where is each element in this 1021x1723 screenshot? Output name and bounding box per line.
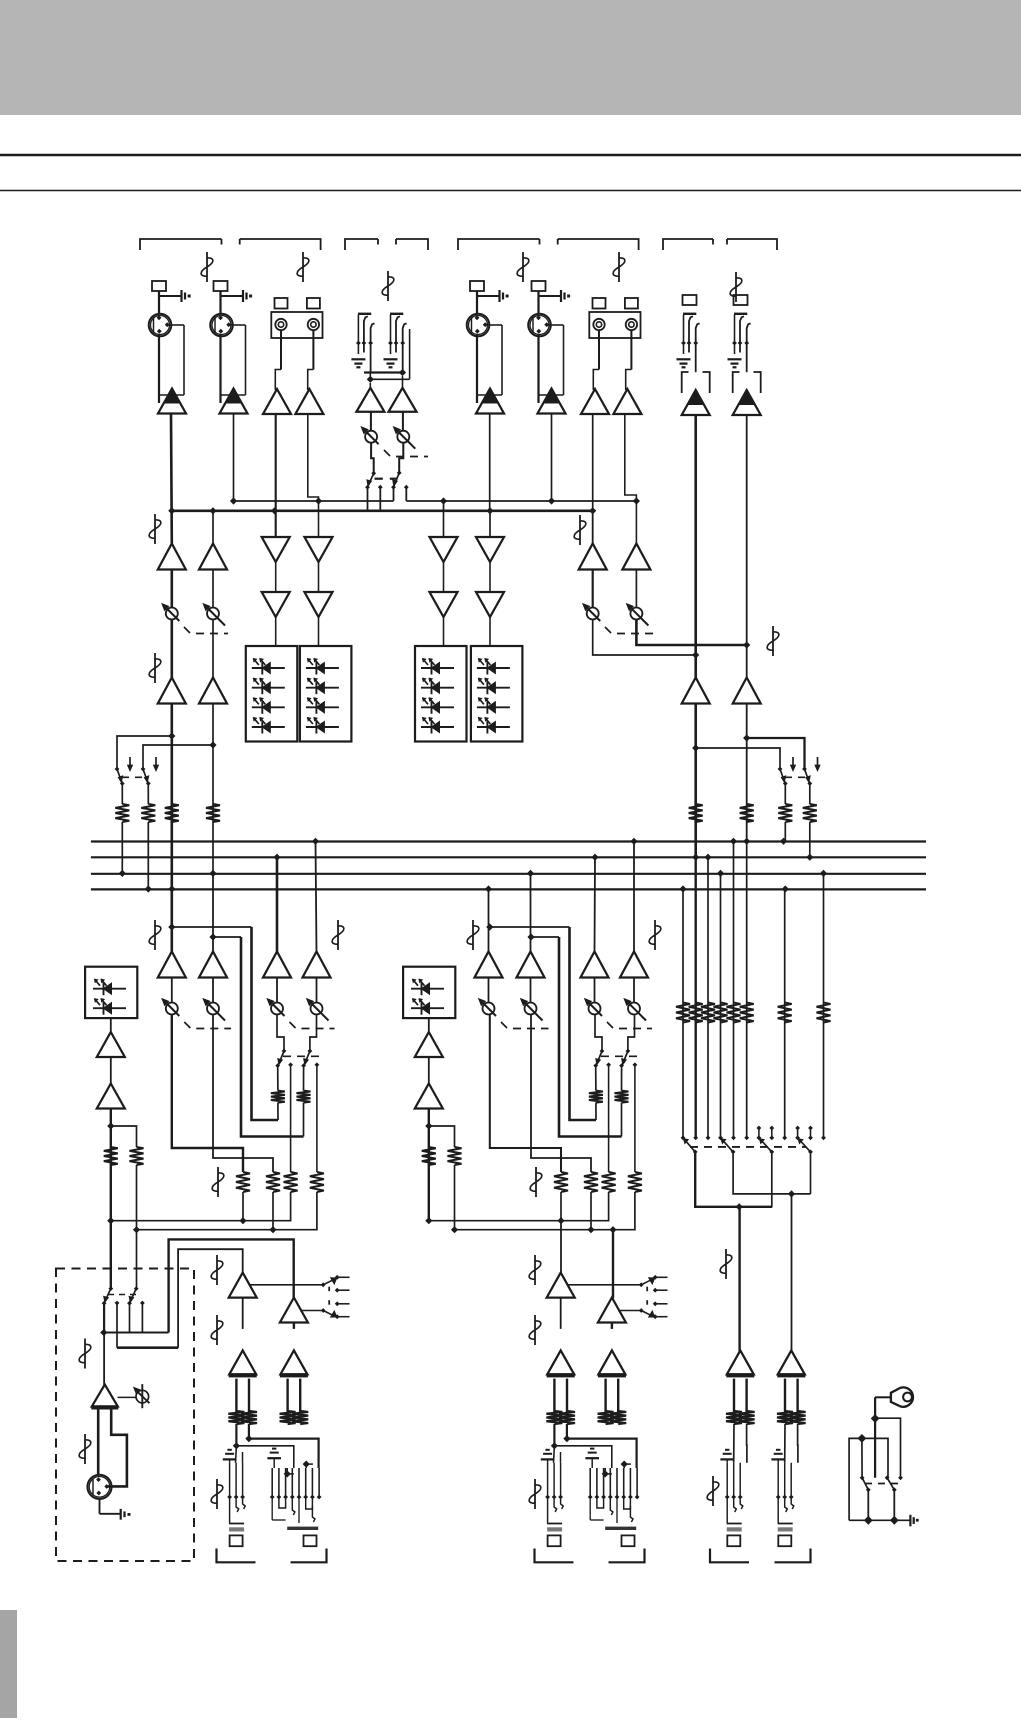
node outA line bbox=[563, 1435, 570, 1442]
wire matrix col 2 bbox=[695, 857, 697, 1138]
bus line 1 bbox=[91, 840, 926, 842]
node tap1 L bbox=[168, 923, 175, 930]
wire tap1b L bbox=[252, 927, 279, 1120]
wire sel R R bbox=[618, 1310, 641, 1312]
node sum1b R bbox=[557, 1217, 564, 1224]
node ch1 bbox=[168, 507, 175, 514]
wire matrix out B bbox=[733, 1152, 810, 1194]
gang dashes matrix bbox=[690, 1146, 806, 1148]
eq down amp a x443 bbox=[430, 537, 458, 562]
node mon2b bbox=[209, 741, 216, 748]
arrow throw 1 bbox=[129, 757, 131, 769]
meter box 1 bbox=[246, 646, 297, 742]
wire pad to XLR CH2 bbox=[219, 291, 221, 314]
wire tap1 R bbox=[490, 926, 570, 928]
node mon1 bbox=[168, 732, 175, 739]
dashed option box bbox=[56, 1269, 194, 1562]
wire XLR loop CH1 bbox=[168, 324, 184, 326]
meter box small L bbox=[85, 967, 137, 1018]
wire amp pot bbox=[118, 1396, 137, 1398]
matrix lever 4 bbox=[798, 1138, 811, 1152]
wire gnd out 2 bbox=[893, 1490, 895, 1521]
wire crL out L bbox=[242, 1298, 244, 1329]
XLR connector CH2 bbox=[210, 314, 233, 337]
wire out thick line bbox=[567, 1439, 637, 1468]
box level pot bbox=[136, 1390, 149, 1403]
bus nodes 3 bbox=[119, 870, 126, 877]
phones resistor R1 bbox=[422, 1147, 436, 1165]
wire r1 bus bbox=[121, 822, 123, 873]
st level pot L bbox=[365, 431, 377, 443]
bus resistor R7 bbox=[689, 804, 703, 822]
wire r down L2 bbox=[272, 1192, 274, 1230]
collect line thick bbox=[172, 509, 593, 512]
amp 2TR R bbox=[733, 390, 761, 415]
output resistor line1b bbox=[610, 1411, 626, 1424]
bus resistor R5 bbox=[778, 804, 792, 822]
wire sel L R bbox=[567, 1284, 641, 1286]
output resistor line0a bbox=[546, 1411, 562, 1424]
wire xlr ground bbox=[99, 1499, 101, 1514]
wire tap1 L bbox=[172, 926, 252, 928]
wire XLR loop CH2 bbox=[230, 324, 246, 326]
sine symbol box 1 bbox=[84, 1339, 86, 1369]
wire 2tr R drop bbox=[746, 415, 748, 645]
wire box xlr loop bbox=[108, 1409, 127, 1486]
wire pot 316.5 bbox=[316, 978, 318, 1003]
section bracket CH input A bbox=[140, 239, 222, 250]
eq down amp b x490 bbox=[476, 592, 504, 617]
wire tap2b R bbox=[559, 937, 622, 1137]
wire box xlr left bbox=[97, 1409, 100, 1475]
pad CH6 bbox=[532, 281, 546, 291]
sel stubs R L bbox=[335, 1301, 340, 1306]
sine symbol send L bbox=[217, 1167, 219, 1197]
pad RCA R B bbox=[625, 298, 638, 309]
wire RCA R A bbox=[312, 330, 314, 369]
wire sum2 L bbox=[137, 1192, 317, 1230]
strip amp 634 bbox=[620, 952, 648, 978]
gang mon pots bbox=[184, 627, 190, 633]
line amp RCA R A bbox=[295, 389, 323, 414]
phones resistor L1 bbox=[104, 1147, 118, 1165]
node sum2a L bbox=[133, 1226, 140, 1233]
arrow throw 4 bbox=[817, 757, 819, 769]
node outD line bbox=[602, 1470, 609, 1477]
aux amp A2 bbox=[622, 544, 650, 570]
wire pr R1 bbox=[428, 1165, 430, 1221]
wire matrix out A2 bbox=[771, 1152, 773, 1207]
wire cr loop outer bbox=[169, 1239, 294, 1332]
bracket out crb bbox=[291, 1549, 327, 1563]
pad RCA R A bbox=[307, 298, 320, 309]
wire res R2 bbox=[621, 1103, 623, 1137]
st switch R bbox=[399, 443, 403, 473]
strip pot 213 bbox=[207, 1003, 219, 1015]
bus nodes 2 bbox=[273, 854, 280, 861]
power amp cr1 bbox=[280, 1350, 307, 1374]
sw jog L2 bbox=[310, 1015, 317, 1052]
sine symbol mon A bbox=[154, 514, 156, 544]
bus resistor R1 bbox=[115, 804, 129, 822]
mon pot A2 bbox=[207, 608, 219, 620]
wire monA2 b bbox=[212, 620, 214, 678]
wire rca1 drop bbox=[275, 414, 277, 537]
wire XLR loop CH6 bbox=[548, 324, 564, 326]
RCA connector pair B bbox=[589, 312, 640, 338]
wire tap2 R bbox=[531, 936, 559, 938]
mute switch 2 bbox=[141, 767, 146, 772]
ground cap CH1 bbox=[159, 295, 181, 297]
sel stubs L L bbox=[335, 1275, 340, 1280]
gang strip 277 bbox=[290, 1022, 296, 1028]
eq down amp a x275 bbox=[262, 537, 290, 562]
output jack stereo cr bbox=[272, 1448, 276, 1450]
wire bal pair line0 bbox=[553, 1379, 555, 1413]
wire crR out R bbox=[611, 1323, 613, 1329]
aux resistor R2 bbox=[615, 1091, 629, 1103]
wire bal pair cr1 bbox=[286, 1379, 288, 1413]
matrix resistor 7 bbox=[778, 1003, 792, 1023]
strip amp 488.5 bbox=[475, 952, 503, 978]
sine symbol 2tr mix bbox=[772, 626, 774, 656]
node c2 bbox=[486, 507, 493, 514]
wire eq x275 bbox=[275, 562, 277, 592]
cr amp L L bbox=[229, 1273, 257, 1298]
wire mon send R2 bbox=[531, 1015, 591, 1173]
output resistor line1a bbox=[598, 1411, 614, 1424]
bracket out linea bbox=[535, 1549, 574, 1563]
sine symbol mon B bbox=[154, 653, 156, 683]
top grey banner bbox=[0, 0, 1021, 115]
wire mon tap 2 bbox=[143, 745, 213, 769]
strip amp 171.8 bbox=[158, 952, 186, 978]
collect line thin b bbox=[406, 500, 636, 502]
chassis ground main bbox=[909, 1515, 911, 1527]
bus line 3 bbox=[91, 873, 926, 875]
wire bal pair main0 bbox=[733, 1379, 735, 1413]
bus resistor R6 bbox=[803, 804, 817, 822]
eq down amp a x318 bbox=[305, 537, 333, 562]
wire monR drop sub bbox=[489, 511, 491, 537]
gang strip 488.5 bbox=[501, 1022, 507, 1028]
wire bus to stripC2 bbox=[530, 873, 532, 952]
wire ch5 drop bbox=[489, 414, 491, 511]
jack ST in R bbox=[390, 313, 403, 315]
sine symbol jack line1 bbox=[534, 1479, 536, 1509]
gang dashes gnd bbox=[865, 1483, 898, 1485]
phones resistor L2 bbox=[130, 1147, 144, 1165]
bus resistor R8 bbox=[740, 804, 754, 822]
wire bus to stripA2 bbox=[212, 873, 214, 952]
wire crR out L bbox=[293, 1323, 295, 1329]
mon amp B2 bbox=[199, 678, 227, 704]
pad CH1 bbox=[152, 281, 166, 291]
wire gnd bottom bbox=[849, 1519, 910, 1521]
arrow throw 2 bbox=[155, 757, 157, 769]
frame 2TR L bbox=[682, 372, 689, 393]
wire meter feed x490 bbox=[489, 617, 491, 646]
strip switch L1 bbox=[282, 1049, 287, 1054]
wire bal pair line1 bbox=[604, 1379, 606, 1413]
ground cap CH5 bbox=[477, 295, 499, 297]
chassis ground box bbox=[120, 1509, 122, 1520]
eq down amp b x443 bbox=[430, 592, 458, 617]
XLR connector CH6 bbox=[528, 314, 551, 337]
output resistor cr0a bbox=[228, 1411, 244, 1424]
output jack mono line bbox=[545, 1449, 549, 1451]
node auxR bbox=[743, 641, 750, 648]
st switch L bbox=[371, 443, 374, 473]
node sum1a L bbox=[107, 1217, 114, 1224]
send resistor R0 bbox=[554, 1172, 568, 1192]
wire phones out L bbox=[110, 1109, 112, 1221]
sine symbol box 2 bbox=[84, 1434, 86, 1464]
sine symbol send R bbox=[535, 1167, 537, 1197]
strip pot 277 bbox=[271, 1003, 283, 1015]
wire 2tr tap 1 bbox=[696, 748, 780, 769]
wire sel L L bbox=[249, 1284, 323, 1286]
section bracket CH input B bbox=[458, 239, 540, 250]
wire mout main La bbox=[733, 1424, 735, 1463]
wire sum1 R bbox=[429, 1192, 609, 1221]
wire box amp bbox=[103, 1333, 105, 1386]
node sum2b L bbox=[269, 1226, 276, 1233]
wire bus to stripD2 bbox=[633, 841, 635, 952]
aux resistor R1 bbox=[589, 1091, 603, 1103]
output resistor main1a bbox=[777, 1411, 793, 1424]
pad 2TR R bbox=[734, 295, 748, 305]
meter box 4 bbox=[471, 646, 523, 742]
wire bal pair cr0 bbox=[235, 1379, 237, 1413]
wire phones out R bbox=[428, 1109, 430, 1221]
wire bus to stripA1 bbox=[171, 889, 174, 952]
wire box route 2 bbox=[129, 1303, 131, 1332]
output resistor cr1a bbox=[280, 1411, 296, 1424]
node outB line bbox=[551, 1442, 558, 1449]
sw jog R1 bbox=[595, 1015, 602, 1052]
matrix resistor 3 bbox=[701, 1003, 715, 1023]
send resistor R3 bbox=[628, 1172, 642, 1192]
power amp line0 bbox=[547, 1350, 574, 1374]
wire pr L1 bbox=[110, 1165, 112, 1221]
pad CH5 bbox=[470, 281, 484, 291]
wire sw4 res bbox=[809, 784, 811, 805]
node auxL bbox=[692, 651, 699, 658]
wire sel R L bbox=[300, 1310, 323, 1312]
wire RCA L B bbox=[598, 330, 600, 369]
node st2 bbox=[367, 376, 374, 383]
2tr amp R bbox=[733, 678, 761, 704]
cr amp R L bbox=[280, 1298, 308, 1323]
line amp RCA L A bbox=[263, 389, 291, 414]
output resistor main0b bbox=[739, 1411, 755, 1424]
wire out thick cr bbox=[249, 1439, 319, 1468]
node tap1 R bbox=[486, 923, 493, 930]
horizontal rule thick bbox=[0, 154, 1021, 157]
wire out thin line bbox=[554, 1446, 611, 1468]
ground cap CH6 bbox=[539, 295, 561, 297]
wire phones into box R bbox=[136, 1230, 138, 1289]
sine symbol cr L1 bbox=[216, 1255, 218, 1285]
wire tap2b L bbox=[241, 937, 304, 1137]
wire bus to stripB1 bbox=[276, 857, 279, 952]
phones amp Ra bbox=[415, 1032, 443, 1057]
aux resistor L1 bbox=[271, 1091, 285, 1103]
wire 2tr R out bbox=[746, 704, 748, 842]
wire pot 171.8 bbox=[171, 978, 173, 1003]
phones amp Rb bbox=[415, 1084, 443, 1109]
node sum2b R bbox=[587, 1226, 594, 1233]
node phones L bbox=[107, 1122, 114, 1129]
node gndD bbox=[890, 1516, 899, 1525]
XLR connector CH1 bbox=[149, 314, 172, 337]
sine symbol master out bbox=[712, 1476, 714, 1506]
bracket main a bbox=[710, 1549, 749, 1563]
wire meter feed x318 bbox=[318, 617, 320, 646]
wire jack cross thick bbox=[364, 371, 403, 373]
strip amp 277 bbox=[263, 952, 291, 978]
mic amp CH5 bbox=[476, 389, 504, 414]
wire mon send L2 bbox=[213, 1015, 273, 1173]
wire swout L2 bbox=[303, 1066, 305, 1091]
wire ring bbox=[875, 1396, 891, 1398]
node sum1b L bbox=[239, 1217, 246, 1224]
wire mon out 1 bbox=[171, 704, 174, 890]
wire r down R1 bbox=[560, 1192, 562, 1221]
bus nodes 4 bbox=[145, 885, 152, 892]
wire pot 634 bbox=[633, 978, 635, 1003]
cr amp R R bbox=[598, 1298, 626, 1323]
pad RCA L A bbox=[275, 298, 288, 309]
wire sum2 R bbox=[455, 1192, 635, 1230]
wire mon out 2 bbox=[212, 704, 214, 874]
bus nodes 1 bbox=[312, 838, 319, 845]
power amp main1 bbox=[778, 1350, 805, 1374]
sine symbol below-bus 4 bbox=[654, 920, 656, 950]
st amp L bbox=[356, 388, 384, 412]
send resistor L3 bbox=[310, 1172, 324, 1192]
wire matrix col 6 bbox=[746, 841, 748, 1138]
wire phones L bbox=[110, 1057, 112, 1084]
node outA cr bbox=[245, 1435, 252, 1442]
sw jog R2 bbox=[628, 1015, 635, 1052]
sine symbol cr R2 bbox=[534, 1315, 536, 1345]
sel switch L R bbox=[639, 1282, 644, 1287]
wire r6 bus bbox=[809, 822, 811, 857]
wire master L bbox=[738, 1207, 740, 1353]
wire eq x443 bbox=[443, 562, 445, 592]
matrix resistor 1 bbox=[676, 1003, 690, 1023]
box switch 1 bbox=[108, 1286, 113, 1291]
wire gndB down bbox=[861, 1438, 863, 1477]
bus resistor R2 bbox=[141, 804, 155, 822]
wire ch2 drop bbox=[233, 414, 235, 502]
wire throw L1 bbox=[290, 1065, 292, 1172]
wire matrix col 7 bbox=[784, 889, 786, 1138]
send resistor L2 bbox=[284, 1172, 298, 1192]
box throw 1 bbox=[115, 1301, 120, 1306]
wire throw R2 bbox=[634, 1065, 636, 1172]
mic amp CH1 bbox=[158, 389, 186, 414]
wire gnd out 1 bbox=[867, 1490, 869, 1521]
arrow throw 3 bbox=[792, 757, 794, 769]
node rca2 bbox=[315, 497, 322, 504]
sine symbol cr L2 bbox=[216, 1315, 218, 1345]
node outC line bbox=[621, 1461, 628, 1468]
mute switch 3 bbox=[778, 767, 783, 772]
jack 2TR R bbox=[734, 313, 747, 315]
horizontal rule thin bbox=[0, 190, 1021, 192]
bracket out lineb bbox=[609, 1549, 645, 1563]
power amp main0 bbox=[727, 1350, 754, 1374]
phones resistor R2 bbox=[448, 1147, 462, 1165]
wire sw3 res bbox=[784, 784, 786, 805]
collect line thin a bbox=[234, 500, 394, 502]
wire rca2 drop bbox=[308, 414, 319, 537]
wire tap2 L bbox=[213, 936, 241, 938]
wire mono tail line bbox=[560, 1452, 562, 1463]
wire pot 277 bbox=[276, 978, 278, 1003]
output resistor cr0b bbox=[241, 1411, 257, 1424]
RCA connector pair A bbox=[271, 312, 322, 338]
node outB cr bbox=[233, 1442, 240, 1449]
wire swout R1 bbox=[595, 1066, 597, 1091]
gang strip 171.8 bbox=[184, 1022, 190, 1028]
strip pot 594.5 bbox=[589, 1003, 601, 1015]
wire meter feed x443 bbox=[443, 617, 445, 646]
meter box 3 bbox=[415, 646, 467, 742]
wire box route 1 bbox=[104, 1331, 169, 1333]
sine symbol ch2 bbox=[206, 252, 208, 282]
wire meter amp L bbox=[110, 1018, 112, 1032]
wire monL drop sub bbox=[443, 501, 445, 537]
wire matrix col 4 bbox=[720, 873, 722, 1137]
wire mon tap 1 bbox=[117, 736, 172, 769]
wire mon2 drop bbox=[212, 511, 214, 544]
pad 2TR L bbox=[683, 295, 697, 305]
gang dashes strip L bbox=[283, 1055, 321, 1057]
send resistor L1 bbox=[266, 1172, 280, 1192]
matrix resistor 6 bbox=[740, 1003, 754, 1023]
wire pot 488.5 bbox=[488, 978, 490, 1003]
sel stubs L R bbox=[653, 1275, 658, 1280]
wire aux to 2trL bbox=[593, 620, 696, 656]
output resistor cr1b bbox=[292, 1411, 308, 1424]
gang aux pots bbox=[605, 627, 611, 633]
wire master R bbox=[791, 1194, 793, 1353]
wire res L1 bbox=[277, 1103, 279, 1120]
phones amp Lb bbox=[97, 1084, 125, 1109]
strip amp 530.5 bbox=[517, 952, 545, 978]
node sum1a R bbox=[425, 1217, 432, 1224]
wire outj line bbox=[553, 1446, 556, 1463]
aux pot A1 bbox=[587, 608, 599, 620]
matrix resistor 4 bbox=[714, 1003, 728, 1023]
power amp cr0 bbox=[229, 1350, 256, 1374]
matrix contacts bbox=[681, 1135, 686, 1140]
wire swout R2 bbox=[621, 1066, 623, 1091]
wire 2tr tap 2 bbox=[747, 738, 805, 769]
section bracket ST input bbox=[345, 239, 378, 250]
send resistor R1 bbox=[584, 1172, 598, 1192]
wire phones into box L bbox=[110, 1221, 112, 1289]
gang dashes mute A bbox=[122, 776, 146, 778]
sine symbol below-bus 3 bbox=[472, 920, 474, 950]
sel switch R R bbox=[639, 1308, 644, 1313]
wire RCA L A bbox=[280, 330, 282, 369]
wire ch1 drop bbox=[170, 414, 173, 544]
